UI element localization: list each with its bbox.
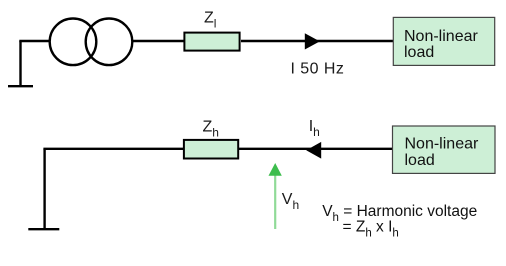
wire ground to source xyxy=(19,40,50,42)
non-linear load box (bottom) xyxy=(393,126,496,173)
resistor Zh xyxy=(184,140,238,159)
ground (top circuit) xyxy=(8,41,33,86)
svg-text:Non-linear: Non-linear xyxy=(404,28,478,45)
current arrow Ih (left-pointing) xyxy=(306,142,321,159)
harmonic voltage arrow Vh (green, up) xyxy=(274,175,276,229)
wire Zh to load (bottom) xyxy=(239,148,393,150)
wire Zl to load xyxy=(241,40,393,42)
svg-text:I 50 Hz: I 50 Hz xyxy=(291,61,345,78)
svg-text:Non-linear: Non-linear xyxy=(405,136,479,153)
resistor Zl xyxy=(184,33,239,51)
ground (bottom circuit) xyxy=(28,149,59,229)
svg-text:load: load xyxy=(405,152,435,169)
AC source / transformer U1 (two overlapping circles) xyxy=(50,19,133,66)
non-linear load box (top) xyxy=(393,17,494,65)
svg-text:load: load xyxy=(404,44,434,61)
wire ground to Zh xyxy=(43,148,184,150)
current arrow I (right-pointing) xyxy=(305,33,320,49)
wire source to Zl xyxy=(132,40,185,42)
